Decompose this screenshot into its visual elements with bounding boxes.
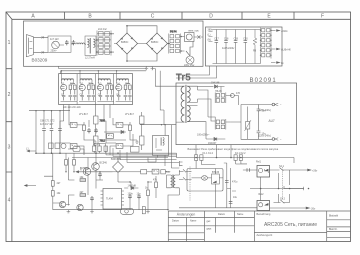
svg-text:вент. осв.: вент. осв.	[189, 30, 200, 33]
capacitor C62	[229, 202, 233, 204]
svg-text:B250C: B250C	[121, 41, 129, 44]
svg-text:C: C	[151, 14, 155, 20]
relay linkage dashed	[190, 167, 283, 201]
transistor Q34	[77, 204, 83, 210]
Tr5 secondary winding upper	[187, 86, 190, 102]
transistor Q31	[92, 163, 100, 171]
svg-text:10n: 10n	[262, 133, 267, 136]
svg-text:S2.2: S2.2	[280, 197, 286, 200]
svg-text:380v: 380v	[208, 29, 214, 32]
svg-text:Name: Name	[190, 220, 197, 223]
wire left arrow net	[27, 150, 36, 152]
regulator U18	[140, 136, 145, 145]
wire left chain	[44, 153, 53, 210]
transistor Q32	[83, 168, 91, 176]
svg-text:1N4007: 1N4007	[208, 142, 217, 145]
resistor R41	[51, 181, 54, 187]
label rails	[224, 163, 236, 191]
svg-text:4: 4	[8, 197, 11, 203]
svg-text:C20: C20	[243, 38, 248, 41]
svg-text:C18: C18	[224, 38, 229, 41]
resistor R39	[141, 170, 147, 174]
wire driver to bottom	[158, 125, 180, 168]
svg-text:AU7: AU7	[269, 119, 275, 123]
svg-text:Rel1: Rel1	[256, 161, 262, 164]
svg-text:10n: 10n	[137, 193, 142, 196]
Tr5 secondary leads	[187, 86, 197, 122]
capacitor C54	[98, 172, 102, 177]
diode D31	[121, 130, 124, 133]
wire box1 internal bus	[181, 37, 193, 56]
bridge rectifier BR1	[114, 31, 140, 57]
svg-text:ARC205 Сеть, питание: ARC205 Сеть, питание	[264, 222, 317, 228]
svg-text:470: 470	[236, 92, 241, 95]
svg-text:LTV-817: LTV-817	[79, 113, 89, 116]
capacitor C41	[257, 105, 261, 140]
svg-text:(N): (N)	[208, 39, 212, 42]
Tr5 primary leads	[176, 86, 184, 122]
wire mid row	[250, 170, 304, 201]
wire to Tr5 primary	[153, 69, 176, 125]
left rail verticals	[36, 111, 60, 154]
junction dots left rails	[35, 110, 60, 111]
contact S0a	[42, 36, 44, 39]
driver rect in module	[212, 174, 220, 184]
output terminal gnd	[271, 62, 280, 64]
opto U11	[70, 123, 77, 128]
svg-text:Zeichnungs-Nr.: Zeichnungs-Nr.	[257, 234, 274, 237]
transformer Tr6 windings	[171, 175, 173, 188]
resistor R36	[93, 146, 96, 151]
svg-text:BT136: BT136	[212, 171, 220, 174]
wire lower row	[179, 207, 257, 209]
frame corner mitre	[6, 12, 12, 19]
regulator U15	[94, 116, 99, 124]
right column rows	[327, 220, 351, 238]
wire arrow net2	[25, 185, 37, 187]
svg-text:+26v: +26v	[312, 170, 318, 173]
regulator U17	[140, 116, 145, 124]
output terminal +12v	[271, 48, 280, 50]
capacitor array C1-C8	[97, 31, 111, 56]
wire cluster to terminals	[230, 96, 272, 140]
relay K4	[257, 201, 270, 211]
capacitor C52	[128, 194, 132, 199]
resistor R49	[142, 207, 145, 214]
contact S2b	[278, 200, 288, 203]
capacitor array2	[169, 34, 181, 54]
svg-text:AL/B+HK: AL/B+HK	[281, 49, 291, 52]
mains filter shield box	[48, 36, 71, 52]
box Tr5 module	[176, 83, 297, 145]
svg-text:470u: 470u	[232, 181, 238, 184]
wire mid horizontal	[140, 125, 176, 136]
connector pair mid	[146, 67, 153, 70]
wire module internals	[192, 169, 224, 192]
svg-text:D: D	[209, 14, 213, 20]
resistor R40	[161, 170, 166, 174]
diode D22	[214, 137, 217, 140]
terminal AC1	[272, 103, 275, 106]
svg-text:TL494: TL494	[106, 198, 113, 201]
switch S1	[197, 36, 200, 39]
sensor pair B	[234, 155, 237, 161]
svg-text:K1.1 K1.2: K1.1 K1.2	[203, 152, 214, 155]
svg-text:22n 22n 22n 22n: 22n 22n 22n 22n	[63, 106, 82, 109]
plug cable wires	[34, 37, 49, 52]
svg-text:1N4148: 1N4148	[211, 82, 220, 85]
svg-text:Name: Name	[237, 213, 244, 216]
wire choke to C-array	[96, 40, 97, 52]
wire filter out	[59, 44, 74, 45]
svg-text:LTV-817: LTV-817	[125, 113, 135, 116]
output terminal +30v	[271, 30, 280, 32]
transformer cell T2	[79, 79, 96, 102]
LED indicator	[231, 94, 235, 98]
wire interconnect right	[196, 160, 247, 207]
resistor R38	[104, 146, 107, 151]
resistor R46	[155, 182, 158, 188]
Tr5 secondary winding lower	[187, 106, 190, 122]
left rail bus	[29, 110, 70, 112]
sensor pair A	[195, 155, 198, 161]
opto U14	[116, 144, 123, 149]
wire stack	[179, 172, 192, 180]
zone ticks left	[6, 69, 12, 172]
svg-text:+310v: +310v	[281, 30, 288, 33]
capacitor C32	[94, 128, 98, 133]
resistor R37	[98, 146, 101, 151]
terminal AC2	[272, 138, 275, 141]
capacitor C31	[87, 128, 91, 133]
left stack contact K1b	[180, 177, 189, 180]
wire box1 to lower bus	[59, 66, 217, 125]
svg-text:3: 3	[8, 144, 11, 150]
wire relay row	[243, 169, 277, 171]
capacitor C71	[50, 128, 54, 130]
ground symbols aux	[93, 140, 138, 143]
output connector array box2	[260, 28, 272, 59]
wire box2 down to Tr5	[176, 66, 217, 78]
thermistor RT1	[246, 122, 250, 130]
wire cell drops	[62, 71, 117, 81]
svg-text:(L): (L)	[208, 34, 211, 37]
wire net A arrow	[76, 171, 113, 173]
bridge small BR3	[113, 162, 124, 173]
relay K1	[185, 33, 195, 42]
driver transformer box	[153, 136, 169, 156]
svg-text:10u: 10u	[233, 196, 238, 199]
svg-text:BC546: BC546	[100, 162, 108, 165]
wire drops from Tr5	[196, 145, 241, 164]
svg-text:220v 15w: 220v 15w	[184, 64, 195, 67]
relay K3	[257, 166, 270, 178]
module enclosure box	[187, 169, 223, 192]
title block outline	[168, 211, 350, 242]
transformer cell T1	[61, 79, 78, 102]
transformer cell T3	[97, 79, 114, 102]
wire sec lower to cluster	[198, 90, 216, 121]
cell dividers	[77, 74, 114, 105]
resistor R43	[80, 179, 86, 182]
wire caps to connector	[250, 30, 261, 64]
wire bridge2 to array2	[140, 43, 169, 45]
svg-text:P3 P4: P3 P4	[170, 31, 177, 34]
svg-text:Tr5: Tr5	[176, 72, 191, 83]
transistor Q33	[59, 201, 65, 207]
svg-text:100n/250v~: 100n/250v~	[197, 134, 210, 137]
svg-text:C17: C17	[214, 38, 219, 41]
title block column lines	[186, 211, 326, 242]
bridge rectifier BR2	[144, 31, 170, 57]
wire L1 to choke	[85, 43, 86, 45]
bus bundle to right section	[106, 146, 179, 163]
left stack contact K1a	[180, 169, 189, 172]
zone letters	[31, 14, 324, 20]
inductor L1	[76, 43, 85, 44]
svg-text:Внимание! Реле срабатывает ко: Внимание! Реле срабатывает когда флаг не…	[188, 147, 279, 151]
connector bracket right	[180, 161, 183, 166]
opto U24 below bus	[121, 208, 134, 214]
sensor group left	[49, 143, 54, 148]
net labels left of box2	[209, 32, 213, 42]
svg-text:Bezeichnung: Bezeichnung	[257, 213, 271, 216]
wire sec upper to diode	[198, 86, 214, 88]
svg-text:2: 2	[8, 92, 11, 98]
svg-text:B40C800: B40C800	[111, 158, 122, 161]
plug X1 mains connector	[26, 35, 33, 57]
svg-text:B250C: B250C	[151, 41, 159, 44]
wire opto row	[113, 171, 171, 173]
svg-text:1N4148: 1N4148	[128, 185, 137, 188]
svg-text:4x47u/400v: 4x47u/400v	[222, 47, 235, 50]
resistor R31	[83, 125, 86, 131]
regulator U16	[94, 136, 99, 145]
diode D32	[131, 186, 134, 189]
wire mid connections	[68, 151, 156, 206]
svg-text:100n: 100n	[128, 193, 134, 196]
wire relay2 out	[270, 207, 304, 209]
wire top bus right	[180, 158, 294, 164]
svg-text:2n2 2n2: 2n2 2n2	[98, 28, 107, 31]
transformer Tr5 core	[184, 85, 187, 123]
sensor rect mid	[131, 147, 140, 153]
lamp H1	[186, 56, 194, 64]
opto U21	[107, 134, 114, 139]
resistor R48	[73, 160, 76, 166]
svg-text:1: 1	[8, 40, 11, 46]
svg-text:S2.1: S2.1	[279, 165, 285, 168]
box B03209	[24, 21, 204, 66]
wires aux section	[60, 105, 142, 156]
filter caps bank box2	[213, 30, 251, 64]
common-mode choke L2	[85, 36, 96, 56]
svg-text:Rel2: Rel2	[259, 193, 265, 196]
bezeichnung divider	[254, 231, 326, 233]
zone numbers	[8, 40, 11, 203]
svg-text:Änderungen: Änderungen	[177, 213, 196, 217]
wire bridges top link	[127, 26, 157, 61]
terminal -24	[304, 207, 310, 209]
capacitor C51	[90, 196, 94, 201]
Tr5 primary winding	[181, 86, 184, 122]
terminal mid stub	[284, 187, 304, 190]
rect cluster lower	[215, 119, 230, 130]
svg-text:B02091: B02091	[250, 78, 277, 84]
capacitor C53	[137, 194, 141, 199]
contact S0b	[42, 51, 44, 54]
svg-text:250v~: 250v~	[51, 49, 58, 52]
svg-text:B03209: B03209	[32, 58, 48, 63]
svg-text:4k7: 4k7	[57, 182, 62, 185]
rect cluster upper (regulator set)	[215, 93, 230, 104]
svg-text:4n7 1kV: 4n7 1kV	[50, 38, 59, 41]
resistor R42	[51, 191, 54, 197]
svg-text:4k7: 4k7	[80, 191, 85, 194]
svg-text:Datum: Datum	[218, 213, 225, 216]
wire top bus bottom-left	[36, 153, 180, 157]
capacitor C72	[58, 128, 62, 130]
resistor R45	[147, 190, 150, 196]
resistor R44	[80, 194, 86, 197]
sensor group above bus	[73, 147, 80, 152]
frame zone band top line	[12, 18, 351, 20]
contact S2a	[277, 168, 288, 171]
box aux cells	[59, 74, 133, 105]
opto U13	[70, 144, 77, 149]
svg-text:10n: 10n	[262, 110, 267, 113]
box outputs	[206, 27, 283, 66]
svg-text:4n7 4n7 4n7: 4n7 4n7 4n7	[40, 123, 54, 126]
junction dots bl	[65, 153, 168, 211]
svg-text:78L05: 78L05	[215, 90, 222, 93]
opto oval in module	[202, 176, 208, 181]
vertical rails mid	[227, 163, 231, 208]
capacitor C61	[225, 181, 229, 183]
svg-text:Blatt Nr.: Blatt Nr.	[329, 228, 338, 231]
wire Tr6 leads	[167, 170, 180, 195]
connector inline	[247, 168, 250, 171]
svg-text:F: F	[321, 14, 324, 20]
svg-text:K2.1 K2.2: K2.1 K2.2	[235, 152, 246, 155]
svg-text:L2 27mH: L2 27mH	[85, 57, 95, 60]
wire bottom bus	[53, 195, 180, 210]
svg-text:C19: C19	[234, 38, 239, 41]
svg-text:gepr.: gepr.	[207, 228, 213, 231]
bleeder resistor zigzag	[253, 30, 257, 64]
svg-text:-26v: -26v	[311, 207, 316, 210]
diode pair row	[104, 132, 126, 140]
zone ticks top	[65, 12, 295, 19]
title block row lines left	[168, 218, 254, 240]
svg-text:gez.: gez.	[207, 220, 212, 223]
IC U22 PWM	[103, 189, 122, 210]
svg-text:Datum: Datum	[172, 220, 179, 223]
capacitor CY1	[65, 40, 69, 45]
wire array to bridge1	[111, 34, 114, 52]
terminal +24	[305, 169, 311, 171]
transformer cell T4	[116, 79, 133, 102]
opto U12	[116, 123, 123, 128]
varistor RV1	[52, 41, 60, 49]
resistor R32	[129, 125, 132, 131]
resistor R47	[65, 160, 68, 166]
capacitor C66	[42, 128, 46, 130]
opto U23	[152, 169, 159, 174]
svg-text:Blattzahl: Blattzahl	[329, 215, 339, 218]
frame zone band left line	[11, 19, 13, 241]
diode D21	[215, 85, 218, 88]
capacitor CY2	[72, 40, 76, 45]
junction dots box1	[96, 25, 182, 62]
ground symbols bottom bus	[67, 210, 150, 213]
